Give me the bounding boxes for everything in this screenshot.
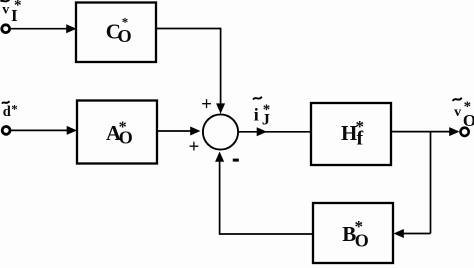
label iJ* xyxy=(253,97,270,129)
label vO* xyxy=(453,98,474,130)
node vI input xyxy=(2,25,10,33)
svg-text:*: * xyxy=(356,117,365,136)
block C0* xyxy=(76,3,156,63)
svg-text:+: + xyxy=(201,94,212,115)
svg-text:*: * xyxy=(14,0,22,14)
svg-text:*: * xyxy=(355,217,364,236)
svg-text:v: v xyxy=(2,3,9,18)
wire summer to H with mid arrow xyxy=(238,127,311,136)
summing junction xyxy=(203,114,238,149)
svg-text:*: * xyxy=(11,102,17,117)
node d input xyxy=(2,126,10,134)
wire node1 to C xyxy=(11,24,77,33)
wire B to summer (left then up) xyxy=(215,152,313,235)
svg-text:d: d xyxy=(3,104,11,120)
wire node2 to A xyxy=(11,126,77,135)
wire branch to B (leftward arrow) xyxy=(394,229,431,238)
block B0* xyxy=(313,203,393,263)
node vO output xyxy=(461,128,469,136)
wire H to output node xyxy=(391,127,460,136)
svg-text:i: i xyxy=(254,105,259,125)
svg-text:+: + xyxy=(189,137,200,158)
wire C to summer (right then down) xyxy=(156,29,225,114)
svg-text:*: * xyxy=(119,119,127,136)
svg-text:*: * xyxy=(263,102,271,118)
svg-text:v: v xyxy=(454,105,461,120)
block Hf* xyxy=(311,103,391,165)
svg-text:*: * xyxy=(122,15,129,30)
label d* xyxy=(2,101,18,120)
sign - (bottom right) xyxy=(233,159,239,162)
block A0* xyxy=(77,101,157,164)
wire branch down from output line xyxy=(430,132,432,234)
label vI* xyxy=(1,0,22,25)
svg-text:*: * xyxy=(464,99,472,115)
wire A to summer xyxy=(157,127,201,136)
